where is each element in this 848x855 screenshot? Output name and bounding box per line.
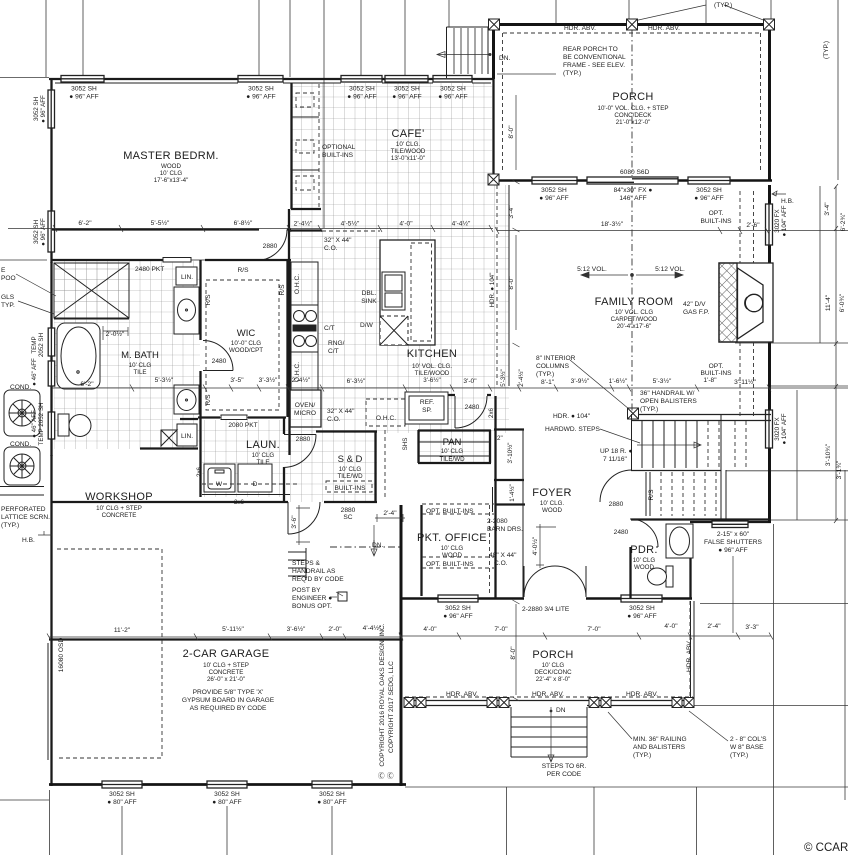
svg-text:146" AFF: 146" AFF — [619, 195, 646, 202]
cased opening 32x44 header — [322, 230, 380, 232]
laundry counter edge — [202, 494, 290, 496]
dimension row front — [399, 633, 773, 640]
family room right exterior wall — [768, 185, 771, 523]
dimension verticals porch left — [513, 95, 520, 701]
svg-text:3'-3½": 3'-3½" — [259, 376, 278, 384]
front door 2-2880 double arcs — [524, 566, 586, 597]
island dishwasher — [380, 316, 408, 345]
svg-text:2'-0": 2'-0" — [328, 626, 342, 633]
svg-text:(TYP.): (TYP.) — [536, 371, 554, 378]
WIC door arc — [203, 341, 233, 371]
svg-text:HDR. ABV.: HDR. ABV. — [446, 691, 478, 698]
pdr toilet — [648, 566, 674, 587]
svg-text:ENGINEER ●: ENGINEER ● — [292, 595, 332, 602]
pantry door 2480 arc — [448, 394, 491, 396]
perforated lattice label — [1, 506, 50, 529]
svg-text:2052 SH: 2052 SH — [38, 333, 45, 357]
false shutter window — [712, 521, 748, 528]
svg-text:● 96" AFF: ● 96" AFF — [438, 94, 467, 101]
stair upper treads dashed — [708, 421, 746, 468]
svg-text:CONCRETE: CONCRETE — [102, 512, 137, 519]
svg-text:11'-2": 11'-2" — [114, 627, 131, 634]
window 3052SH bedroom top-right — [238, 76, 283, 83]
svg-text:1'-4½": 1'-4½" — [509, 484, 516, 501]
svg-text:OPT.: OPT. — [709, 363, 724, 370]
window 3052SH porch rear left — [532, 177, 577, 184]
WIC bottom wall — [140, 447, 198, 449]
rear stair box — [447, 27, 489, 78]
front wall right section — [690, 521, 771, 523]
foyer left wall — [494, 396, 525, 598]
rear porch dashed inner lines — [503, 33, 761, 172]
dashdot post line garage hall — [330, 540, 401, 556]
svg-text:3052 SH: 3052 SH — [349, 86, 375, 93]
svg-text:10' CLG: 10' CLG — [339, 466, 362, 473]
island — [380, 240, 435, 345]
svg-text:3052 SH: 3052 SH — [445, 605, 471, 612]
svg-text:● 96" AFF: ● 96" AFF — [694, 195, 723, 202]
rear porch right wall — [768, 23, 771, 181]
svg-text:BUILT-INS: BUILT-INS — [334, 485, 366, 492]
svg-text:48" X 44": 48" X 44" — [489, 552, 517, 559]
svg-text:32" X 44": 32" X 44" — [324, 237, 352, 244]
svg-text:2x6: 2x6 — [196, 466, 203, 477]
linen lower — [161, 424, 197, 446]
porch post top-left — [489, 19, 500, 30]
svg-text:OPEN BALISTERS: OPEN BALISTERS — [640, 398, 697, 405]
svg-text:3'-0": 3'-0" — [463, 378, 477, 385]
svg-text:3'-6½": 3'-6½" — [423, 377, 440, 384]
svg-text:13'-0"x11'-0": 13'-0"x11'-0" — [391, 155, 425, 162]
svg-text:DN.: DN. — [372, 542, 384, 549]
svg-text:BUILT-INS: BUILT-INS — [700, 370, 732, 377]
svg-text:4'-0": 4'-0" — [423, 626, 437, 633]
svg-text:SINK: SINK — [361, 298, 377, 305]
cols leader — [689, 711, 728, 741]
svg-text:HDR. ABV.: HDR. ABV. — [626, 691, 658, 698]
svg-text:3052 SH: 3052 SH — [33, 220, 40, 244]
rear porch left wall — [492, 23, 495, 79]
bedroom door 2880 arc — [256, 230, 287, 261]
structural grid lines above house — [46, 0, 405, 228]
svg-text:R/S: R/S — [279, 284, 286, 296]
family room label — [595, 296, 674, 330]
svg-text:10' CLG: 10' CLG — [633, 557, 656, 564]
svg-text:10'-0" VOL. CLG. + STEP: 10'-0" VOL. CLG. + STEP — [598, 105, 669, 112]
left margin grid — [0, 260, 49, 800]
svg-text:HARDWD. STEPS: HARDWD. STEPS — [545, 426, 601, 433]
vestibule stub wall — [291, 208, 321, 210]
svg-text:CONC/DECK: CONC/DECK — [614, 112, 652, 119]
svg-text:LATTICE SCRN.: LATTICE SCRN. — [1, 514, 50, 521]
48x44 co label — [489, 552, 517, 567]
svg-text:3052 SH: 3052 SH — [440, 86, 466, 93]
window 3052SH bedroom top-left — [61, 76, 104, 83]
svg-text:● 96" AFF: ● 96" AFF — [246, 94, 275, 101]
S and D right wall — [374, 431, 376, 502]
svg-text:21'-0"x12'-0": 21'-0"x12'-0" — [616, 119, 651, 126]
svg-text:CARPET/WOOD: CARPET/WOOD — [611, 316, 658, 323]
svg-text:HDR. ABV.: HDR. ABV. — [648, 25, 680, 32]
kitchen OHC lower — [291, 352, 318, 390]
svg-text:H.B.: H.B. — [781, 198, 794, 205]
dimension row interior mid — [52, 385, 848, 392]
svg-text:3'-5": 3'-5" — [230, 377, 244, 384]
svg-text:POST BY: POST BY — [292, 587, 321, 594]
stair mid landing wall — [631, 470, 721, 472]
window TEMP 2052SH bath 2 — [48, 361, 55, 386]
svg-text:● 104" AFF: ● 104" AFF — [781, 205, 788, 236]
dimension row garage — [47, 634, 403, 641]
svg-text:3'-10¾": 3'-10¾" — [825, 443, 832, 466]
porch front steps — [511, 707, 587, 757]
svg-text:3'-6½": 3'-6½" — [287, 625, 306, 633]
S and D door 2880 SC arc — [288, 502, 320, 534]
porch rear label — [598, 91, 669, 126]
svg-text:10' CLG.: 10' CLG. — [540, 500, 565, 507]
svg-text:10' CLG + STEP: 10' CLG + STEP — [96, 505, 142, 512]
svg-text:3'-4": 3'-4" — [508, 205, 515, 219]
dryer box — [238, 464, 272, 492]
svg-text:UP 18 R. ●: UP 18 R. ● — [600, 448, 632, 455]
pocket door 2080 PKT — [220, 415, 248, 420]
svg-text:6'-2": 6'-2" — [78, 220, 92, 227]
workshop top wall — [52, 501, 288, 503]
window 3052SH garage 1 — [102, 781, 142, 788]
svg-text:● 80" AFF: ● 80" AFF — [212, 799, 241, 806]
perforated lattice screen lines — [0, 487, 44, 496]
svg-text:PERFORATED: PERFORATED — [1, 506, 46, 513]
garage top wall — [49, 638, 401, 640]
interior columns note — [536, 355, 576, 386]
svg-text:3'-4": 3'-4" — [824, 202, 831, 216]
bedroom hall east wall — [288, 209, 290, 260]
S and D builtins dashed — [326, 481, 372, 492]
window 3052SH garage 2 — [207, 781, 247, 788]
svg-text:REQ'D BY CODE: REQ'D BY CODE — [292, 576, 344, 583]
pkt office label — [417, 532, 487, 559]
svg-text:32" X 44": 32" X 44" — [327, 408, 355, 415]
svg-text:84"x30" FX ●: 84"x30" FX ● — [614, 187, 653, 194]
stair landing right edge — [721, 414, 726, 519]
kitchen label — [407, 348, 457, 384]
kitchen tile east edge — [508, 185, 510, 386]
barn doors dashed wall — [489, 505, 491, 595]
svg-text:HDR. ABV.: HDR. ABV. — [686, 640, 693, 672]
svg-text:C.O.: C.O. — [494, 560, 508, 567]
bath left exterior wall — [50, 262, 52, 456]
sd label — [334, 454, 366, 492]
svg-text:GYPSUM BOARD IN GARAGE: GYPSUM BOARD IN GARAGE — [182, 697, 275, 704]
svg-text:2'-4½": 2'-4½" — [292, 376, 311, 384]
svg-text:WOOD: WOOD — [442, 552, 462, 559]
cafe label — [391, 128, 426, 162]
tile floor cafe kitchen — [291, 83, 509, 433]
svg-text:4'-5½": 4'-5½" — [341, 220, 360, 228]
bottom grid verticals — [50, 524, 774, 855]
svg-text:3052 SH: 3052 SH — [394, 86, 420, 93]
svg-text:11'-4": 11'-4" — [825, 294, 832, 311]
svg-text:Ⓒ: Ⓒ — [387, 772, 394, 780]
svg-text:O.H.C.: O.H.C. — [376, 415, 396, 422]
svg-text:DECK/CONC: DECK/CONC — [534, 669, 572, 676]
svg-text:3052 SH: 3052 SH — [71, 86, 97, 93]
2-0.5 shower dim — [103, 326, 128, 340]
svg-text:36" HANDRAIL W/: 36" HANDRAIL W/ — [640, 390, 695, 397]
bath vanity 2 — [174, 385, 199, 414]
HB tick right — [772, 191, 786, 196]
foyer label — [532, 487, 571, 514]
bath top wall — [52, 259, 163, 261]
svg-text:● 104" AFF: ● 104" AFF — [781, 413, 788, 444]
left exterior wall bedroom — [50, 78, 52, 263]
svg-text:TEMP 2052 SH: TEMP 2052 SH — [38, 403, 45, 446]
svg-text:1'-6½": 1'-6½" — [609, 377, 628, 385]
window 3020FX family 1 — [766, 204, 773, 245]
interior columns leader — [570, 360, 629, 409]
svg-text:COND.: COND. — [10, 441, 31, 448]
bedroom bottom wall — [52, 228, 291, 230]
laundry top wall with pocket door — [198, 416, 286, 418]
stair left edge — [631, 414, 633, 470]
hall wall with pocket door — [205, 259, 291, 261]
svg-text:R/S: R/S — [205, 294, 212, 306]
svg-text:LAUN.: LAUN. — [246, 439, 280, 451]
svg-text:WOOD: WOOD — [161, 163, 181, 170]
svg-text:(TYP.): (TYP.) — [633, 752, 651, 759]
wall right of pdr — [689, 524, 691, 598]
svg-text:R/S: R/S — [238, 267, 250, 274]
svg-text:10' CLG: 10' CLG — [441, 448, 464, 455]
window 3052SH front right — [621, 595, 662, 602]
svg-text:FALSE SHUTTERS: FALSE SHUTTERS — [704, 539, 762, 546]
steps down arrow — [548, 707, 554, 762]
svg-text:4'-0": 4'-0" — [664, 623, 678, 630]
garage dim labels — [114, 624, 382, 634]
svg-text:TILE/WOOD: TILE/WOOD — [415, 370, 450, 377]
bath toilet — [58, 414, 91, 437]
garage bottom wall with window gaps — [49, 783, 406, 786]
svg-text:● 96" AFF: ● 96" AFF — [40, 218, 47, 246]
svg-text:3052 SH: 3052 SH — [33, 97, 40, 121]
front porch floor edge — [405, 701, 693, 706]
svg-text:2880: 2880 — [296, 436, 311, 443]
tile floor pantry — [419, 431, 490, 463]
svg-text:3'-11½": 3'-11½" — [734, 378, 756, 386]
svg-text:BARN DRS.: BARN DRS. — [487, 526, 523, 533]
svg-text:1'-8": 1'-8" — [703, 377, 717, 384]
svg-text:16080 OSD: 16080 OSD — [58, 638, 65, 673]
dbl sink label — [361, 290, 377, 305]
corridor wall piece — [180, 418, 198, 420]
svg-text:2480: 2480 — [212, 358, 227, 365]
svg-text:WOOD: WOOD — [542, 507, 562, 514]
svg-text:5:12 VOL.: 5:12 VOL. — [655, 266, 685, 273]
svg-text:TILE/WD: TILE/WD — [439, 456, 465, 463]
svg-text:KITCHEN: KITCHEN — [407, 348, 457, 360]
svg-text:H.B.: H.B. — [22, 537, 35, 544]
svg-text:MIN. 36" RAILING: MIN. 36" RAILING — [633, 736, 687, 743]
family opt builtins upper dashed — [740, 191, 754, 263]
svg-text:3052 SH: 3052 SH — [319, 791, 345, 798]
svg-text:2480: 2480 — [614, 529, 629, 536]
top exterior wall with window gaps — [49, 78, 493, 80]
svg-text:5'-3½": 5'-3½" — [500, 369, 507, 386]
header dashed line family west — [496, 185, 498, 385]
stair lower flight treads dashed — [661, 472, 716, 516]
cafe right wall — [492, 78, 494, 181]
svg-text:REF.: REF. — [420, 399, 434, 406]
grid line right of porch — [497, 73, 556, 75]
window 3052SH porch rear right — [688, 177, 730, 184]
svg-text:(TYP.): (TYP.) — [730, 752, 748, 759]
svg-text:17'-6"x13'-4": 17'-6"x13'-4" — [154, 177, 189, 184]
porch column pair 3 — [589, 698, 611, 708]
svg-text:3052 SH: 3052 SH — [541, 187, 567, 194]
svg-text:10'-0" CLG: 10'-0" CLG — [231, 340, 261, 347]
svg-text:MASTER BEDRM.: MASTER BEDRM. — [123, 150, 219, 162]
svg-text:WORKSHOP: WORKSHOP — [85, 491, 153, 503]
master bedroom label — [123, 150, 219, 184]
false shutters note — [704, 531, 762, 554]
oven micro label — [294, 402, 316, 417]
rear porch note — [563, 46, 626, 77]
washer box — [204, 464, 235, 492]
svg-text:FRAME - SEE ELEV.: FRAME - SEE ELEV. — [563, 62, 625, 69]
svg-text:3052 SH: 3052 SH — [696, 187, 722, 194]
svg-text:10' CLG: 10' CLG — [252, 452, 275, 459]
stair upper flight treads — [642, 421, 697, 468]
svg-text:● 46" AFF: ● 46" AFF — [31, 358, 38, 386]
rear porch top wall — [491, 23, 772, 26]
window TEMP 2052SH bath 1 — [48, 328, 55, 356]
svg-text:8'-0": 8'-0" — [508, 125, 515, 139]
svg-text:3'-10½": 3'-10½" — [507, 443, 514, 464]
dimension row porch mid — [495, 227, 771, 234]
svg-text:2-CAR GARAGE: 2-CAR GARAGE — [183, 648, 270, 660]
svg-text:3020 FX: 3020 FX — [774, 209, 781, 232]
svg-text:STEPS TO 6R.: STEPS TO 6R. — [542, 763, 587, 770]
opt builtins family upper — [700, 210, 760, 229]
family opt builtins lower dashed — [740, 342, 754, 418]
bath tub — [57, 323, 100, 389]
svg-text:CONCRETE: CONCRETE — [209, 669, 244, 676]
svg-text:OPT.: OPT. — [709, 210, 724, 217]
interior dim row labels — [155, 376, 757, 386]
porch post top-right — [764, 19, 775, 30]
svg-text:7'-0": 7'-0" — [494, 626, 508, 633]
svg-text:2'-4½": 2'-4½" — [518, 369, 525, 386]
stair direction arrow up — [637, 442, 701, 448]
svg-text:OVEN/: OVEN/ — [295, 402, 316, 409]
32x44 co kitchen label — [327, 408, 355, 423]
svg-text:HDR. ● 104": HDR. ● 104" — [489, 273, 496, 308]
svg-text:2880: 2880 — [263, 243, 278, 250]
svg-text:2'-6": 2'-6" — [746, 222, 760, 229]
workshop label — [85, 491, 153, 519]
svg-text:● 96" AFF: ● 96" AFF — [627, 613, 656, 620]
porch hdr dashed — [405, 601, 693, 697]
WIC rod and shelf dashed — [206, 280, 279, 410]
svg-text:R/S: R/S — [648, 489, 655, 501]
svg-text:C/T: C/T — [324, 325, 335, 332]
svg-text:SC: SC — [343, 514, 352, 521]
svg-text:DBL.: DBL. — [362, 290, 377, 297]
svg-text:10' VOL. CLG: 10' VOL. CLG — [615, 309, 654, 316]
svg-text:2880: 2880 — [609, 501, 624, 508]
svg-text:HDR. ● 104": HDR. ● 104" — [553, 413, 591, 420]
steps 6r note — [542, 763, 587, 778]
svg-text:PAN: PAN — [443, 437, 462, 448]
svg-text:7'-0": 7'-0" — [587, 626, 601, 633]
svg-text:(TYP.): (TYP.) — [1, 522, 19, 529]
svg-text:3'-9½": 3'-9½" — [571, 377, 590, 385]
steps handrail note — [292, 560, 344, 610]
svg-text:PORCH: PORCH — [532, 649, 573, 661]
svg-text:SP.: SP. — [422, 407, 432, 414]
svg-text:W: W — [216, 481, 223, 488]
svg-text:● 96" AFF: ● 96" AFF — [539, 195, 568, 202]
svg-text:S & D: S & D — [338, 454, 363, 465]
svg-text:10' CLG + STEP: 10' CLG + STEP — [203, 662, 249, 669]
svg-text:10' VOL. CLG.: 10' VOL. CLG. — [412, 363, 452, 370]
svg-text:STEPS &: STEPS & — [292, 560, 320, 567]
svg-text:10' CLG: 10' CLG — [441, 545, 464, 552]
optional builtins label — [322, 144, 356, 159]
svg-text:TYP.: TYP. — [1, 302, 15, 309]
svg-text:6080 S6D: 6080 S6D — [620, 169, 650, 176]
svg-text:2'-4": 2'-4" — [383, 510, 397, 517]
svg-text:● 96" AFF: ● 96" AFF — [347, 94, 376, 101]
porch column pair 1 — [404, 698, 426, 708]
svg-text:4'-4½": 4'-4½" — [452, 220, 471, 228]
svg-text:2-2080: 2-2080 — [487, 518, 508, 525]
laundry counter dashes — [202, 483, 300, 485]
garage label — [183, 648, 270, 683]
svg-text:● 96" AFF: ● 96" AFF — [392, 94, 421, 101]
svg-text:8'-0": 8'-0" — [508, 276, 515, 290]
svg-text:(TYP.): (TYP.) — [563, 70, 581, 77]
svg-text:(TYP.): (TYP.) — [640, 406, 658, 413]
svg-text:GLS: GLS — [1, 294, 15, 301]
2880 sc label — [341, 507, 356, 521]
ref sp label — [420, 399, 434, 414]
svg-text:6'-0¾": 6'-0¾" — [839, 293, 846, 312]
svg-text:● 96" AFF: ● 96" AFF — [40, 95, 47, 123]
window 3052SH cafe 3 — [433, 76, 472, 83]
svg-text:CAFE': CAFE' — [392, 128, 425, 140]
svg-text:OPTIONAL: OPTIONAL — [322, 144, 356, 151]
svg-text:WOOD: WOOD — [634, 564, 654, 571]
rear stair down arrow — [437, 52, 490, 58]
kitchen range cooktop — [291, 305, 318, 352]
right margin dim ticks — [834, 184, 838, 523]
svg-text:LIN.: LIN. — [181, 274, 193, 281]
svg-text:6'-2¾": 6'-2¾" — [840, 212, 847, 231]
svg-text:TILE: TILE — [133, 369, 146, 376]
pdr label — [630, 544, 657, 571]
svg-text:POO: POO — [1, 275, 16, 282]
right margin grid horizontals — [694, 231, 848, 801]
kitchen OHC dashed — [366, 399, 405, 426]
svg-text:4'-0½": 4'-0½" — [531, 536, 539, 555]
window 3052SH left wall upper — [48, 90, 55, 128]
cafe kitchen divider wall — [289, 229, 322, 231]
cafe optional builtins dashed — [291, 83, 319, 209]
svg-text:2480: 2480 — [465, 404, 480, 411]
svg-text:FAMILY ROOM: FAMILY ROOM — [595, 296, 674, 308]
window 3052SH cafe 1 — [341, 76, 382, 83]
